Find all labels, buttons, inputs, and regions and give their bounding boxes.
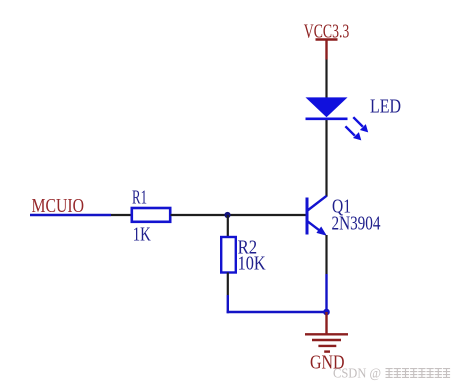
wire emitter down blue segment [325,274,327,312]
wire junction to Q1 base [228,214,306,216]
transistor Q1 collector diagonal [308,196,327,211]
watermark CJK glyph blocks [386,368,451,377]
transistor Q1 emitter diagonal with arrow [308,221,327,236]
wire LED cathode to collector [325,118,327,197]
wire R1 to junction [171,214,228,216]
wire VCC to LED anode [325,60,327,99]
LED cathode bar [306,118,348,121]
svg-text:1K: 1K [133,224,151,246]
junction dot base node [224,212,230,218]
power VCC3.3 bar [316,38,338,40]
wire MCUIO net (blue segment) [30,214,111,216]
svg-text:VCC3.3: VCC3.3 [304,20,350,42]
svg-text:CSDN @: CSDN @ [333,366,381,381]
svg-text:2N3904: 2N3904 [332,213,381,235]
power VCC3.3 stub wire [325,40,327,60]
svg-text:MCUIO: MCUIO [32,195,85,217]
wire R2 bottom blue segment [227,295,229,313]
svg-text:LED: LED [370,96,401,118]
wire MCUIO to R1 [111,214,131,216]
resistor R1 body [132,208,170,222]
wire R2 bottom black segment [227,273,229,296]
LED diode triangle [306,97,348,117]
LED emission arrow 1 [353,117,368,132]
wire emitter down black segment [325,235,327,274]
ground symbol bar 2 [312,339,341,341]
wire junction down to R2 [227,215,229,237]
ground symbol bar 3 [318,345,336,347]
LED emission arrow 2 [345,126,361,140]
junction dot ground node [323,309,330,316]
ground stub wire [325,312,327,334]
wire bottom horizontal to ground node [227,311,327,313]
svg-text:10K: 10K [238,252,266,274]
transistor Q1 base bar [306,198,309,235]
ground symbol bar 1 [305,333,348,335]
ground symbol bar 4 [324,350,330,352]
svg-text:R1: R1 [132,187,147,209]
resistor R2 body [221,237,236,273]
